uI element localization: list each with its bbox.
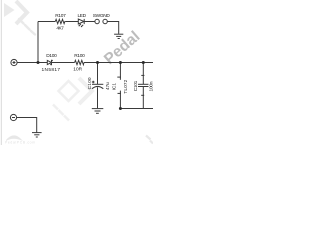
svg-text:10R: 10R: [73, 67, 82, 73]
svg-text:R107: R107: [55, 13, 66, 19]
svg-text:LED: LED: [78, 13, 87, 19]
svg-text:C100: C100: [87, 77, 93, 89]
svg-text:C101: C101: [133, 80, 139, 91]
svg-text:4K7: 4K7: [56, 25, 64, 31]
svg-text:TL072: TL072: [123, 79, 129, 93]
svg-text:IC1: IC1: [112, 83, 118, 91]
svg-text:100n: 100n: [148, 81, 153, 91]
svg-text:D100: D100: [46, 53, 57, 59]
svg-text:47u: 47u: [105, 82, 111, 90]
svg-text:SWGND: SWGND: [93, 13, 111, 19]
svg-text:PedalPCB.com: PedalPCB.com: [5, 141, 35, 145]
svg-text:R100: R100: [74, 53, 85, 59]
svg-text:1N5817: 1N5817: [42, 67, 61, 73]
